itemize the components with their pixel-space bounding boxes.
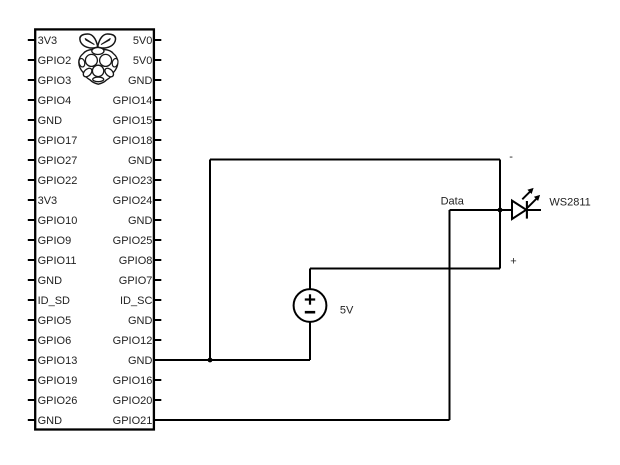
svg-text:GPIO26: GPIO26 (38, 395, 78, 407)
pin 17 3V3 (left) (28, 195, 57, 207)
pin 15 GPIO22 (left) (28, 175, 78, 187)
svg-text:GPIO13: GPIO13 (38, 355, 78, 367)
svg-text:+: + (510, 255, 516, 267)
LED D1 WS2811: emission arrow 2 (528, 195, 541, 208)
pin 11 GPIO17 (left) (28, 135, 78, 147)
svg-text:GPIO15: GPIO15 (113, 115, 153, 127)
svg-text:GND: GND (128, 215, 153, 227)
pin 9 GND (left) (28, 115, 62, 127)
svg-text:ID_SD: ID_SD (38, 295, 70, 307)
pin 20 GND (right) (128, 215, 161, 227)
pin 2 5V0 (right) (133, 35, 161, 47)
svg-text:GPIO9: GPIO9 (38, 235, 72, 247)
pin 5 GPIO3 (left) (28, 75, 71, 87)
wire Data net: vertical riser at x=449.5 (449, 210, 451, 420)
svg-text:GPIO19: GPIO19 (38, 375, 78, 387)
svg-text:Data: Data (441, 196, 465, 208)
pin 22 GPIO25 (right) (113, 235, 162, 247)
svg-text:GPIO18: GPIO18 (113, 135, 153, 147)
svg-text:GPIO16: GPIO16 (113, 375, 153, 387)
voltage source V1 minus sign (305, 311, 315, 314)
wire +5V net: horizontal run from 5V source plus terminal (310, 268, 500, 270)
pin 1 3V3 (left) (28, 35, 57, 47)
pin 39 GND (left) (28, 415, 62, 427)
pin 40 GPIO21 (right) (113, 415, 153, 427)
pin 18 GPIO24 (right) (113, 195, 162, 207)
wire Data net: horizontal into LED node (450, 209, 501, 211)
pin 31 GPIO6 (left) (28, 335, 71, 347)
pin 37 GPIO26 (left) (28, 395, 78, 407)
pin 13 GPIO27 (left) (28, 155, 78, 167)
pin 12 GPIO18 (right) (113, 135, 162, 147)
Raspberry Pi GPIO header U1 (body) (35, 29, 154, 429)
Raspberry Pi logo (78, 34, 119, 84)
svg-text:GND: GND (128, 355, 153, 367)
pin 16 GPIO23 (right) (113, 175, 162, 187)
wire +5V net: 5V source top stub (309, 269, 311, 290)
pin 10 GPIO15 (right) (113, 115, 162, 127)
junction GND net at (210,360) (208, 358, 213, 363)
svg-text:GPIO10: GPIO10 (38, 215, 78, 227)
wire GND net: 5V source bottom stub (309, 322, 311, 360)
pin 19 GPIO10 (left) (28, 215, 78, 227)
svg-text:GPIO7: GPIO7 (119, 275, 153, 287)
wire GND net: vertical riser at x=210 (209, 160, 211, 361)
svg-text:GPIO3: GPIO3 (38, 75, 72, 87)
LED D1 WS2811: triangle (anode) (512, 201, 526, 219)
svg-text:GPIO25: GPIO25 (113, 235, 153, 247)
voltage source V1 5V (circle) (294, 289, 327, 322)
pin 32 GPIO12 (right) (113, 335, 162, 347)
svg-text:GND: GND (128, 315, 153, 327)
pin 33 GPIO13 (left) (28, 355, 78, 367)
svg-text:GND: GND (38, 115, 63, 127)
svg-text:5V0: 5V0 (133, 35, 153, 47)
pin 6 GND (right) (128, 75, 161, 87)
wire GND net: top horizontal run to LED minus (210, 159, 500, 161)
svg-text:GPIO12: GPIO12 (113, 335, 153, 347)
pin 35 GPIO19 (left) (28, 375, 78, 387)
svg-text:GPIO8: GPIO8 (119, 255, 153, 267)
pin 14 GND (right) (128, 155, 161, 167)
svg-text:GPIO22: GPIO22 (38, 175, 78, 187)
svg-text:GPIO23: GPIO23 (113, 175, 153, 187)
svg-text:5V: 5V (340, 305, 354, 317)
wire GND net: drop from top run to LED node (499, 160, 501, 211)
svg-text:GND: GND (38, 275, 63, 287)
svg-text:ID_SC: ID_SC (120, 295, 152, 307)
svg-text:5V0: 5V0 (133, 55, 153, 67)
wire Data net: from Pi pin GPIO21 (row 20) (154, 419, 450, 421)
pin 4 5V0 (right) (133, 55, 161, 67)
pin 38 GPIO20 (right) (113, 395, 162, 407)
pin 27 ID_SD (left) (28, 295, 70, 307)
pin 29 GPIO5 (left) (28, 315, 71, 327)
svg-text:GPIO2: GPIO2 (38, 55, 72, 67)
svg-text:GND: GND (38, 415, 63, 427)
pin 36 GPIO16 (right) (113, 375, 162, 387)
pin 30 GND (right) (128, 315, 161, 327)
svg-text:GPIO6: GPIO6 (38, 335, 72, 347)
pin 28 ID_SC (right) (120, 295, 161, 307)
LED D1 WS2811: lead line (500, 209, 541, 211)
pin 8 GPIO14 (right) (113, 95, 162, 107)
svg-text:GPIO21: GPIO21 (113, 415, 153, 427)
svg-text:WS2811: WS2811 (549, 196, 590, 208)
svg-text:GPIO5: GPIO5 (38, 315, 72, 327)
pin 7 GPIO4 (left) (28, 95, 71, 107)
svg-text:GPIO17: GPIO17 (38, 135, 78, 147)
junction Data/LED node at (500,210) (498, 208, 503, 213)
svg-text:GPIO20: GPIO20 (113, 395, 153, 407)
svg-text:GPIO14: GPIO14 (113, 95, 153, 107)
svg-text:GPIO24: GPIO24 (113, 195, 153, 207)
pin 23 GPIO11 (left) (28, 255, 77, 267)
pin 24 GPIO8 (right) (119, 255, 162, 267)
svg-text:GPIO27: GPIO27 (38, 155, 78, 167)
wire +5V net: from LED node down to plus run (499, 210, 501, 269)
pin 21 GPIO9 (left) (28, 235, 71, 247)
svg-text:3V3: 3V3 (38, 195, 58, 207)
svg-text:GPIO11: GPIO11 (38, 255, 77, 267)
pin 26 GPIO7 (right) (119, 275, 162, 287)
pin 25 GND (left) (28, 275, 62, 287)
svg-text:GND: GND (128, 155, 153, 167)
svg-text:GPIO4: GPIO4 (38, 95, 72, 107)
svg-text:3V3: 3V3 (38, 35, 58, 47)
wire GND net: Pi pin GND (row 17) to 5V source minus terminal (154, 359, 310, 361)
LED D1 WS2811: cathode bar (526, 201, 528, 219)
pin 3 GPIO2 (left) (28, 55, 71, 67)
pin 34 GND (right) (128, 355, 153, 367)
voltage source V1 plus sign (305, 294, 315, 304)
svg-text:-: - (509, 151, 513, 163)
LED D1 WS2811: emission arrow 1 (522, 188, 533, 199)
svg-text:GND: GND (128, 75, 153, 87)
